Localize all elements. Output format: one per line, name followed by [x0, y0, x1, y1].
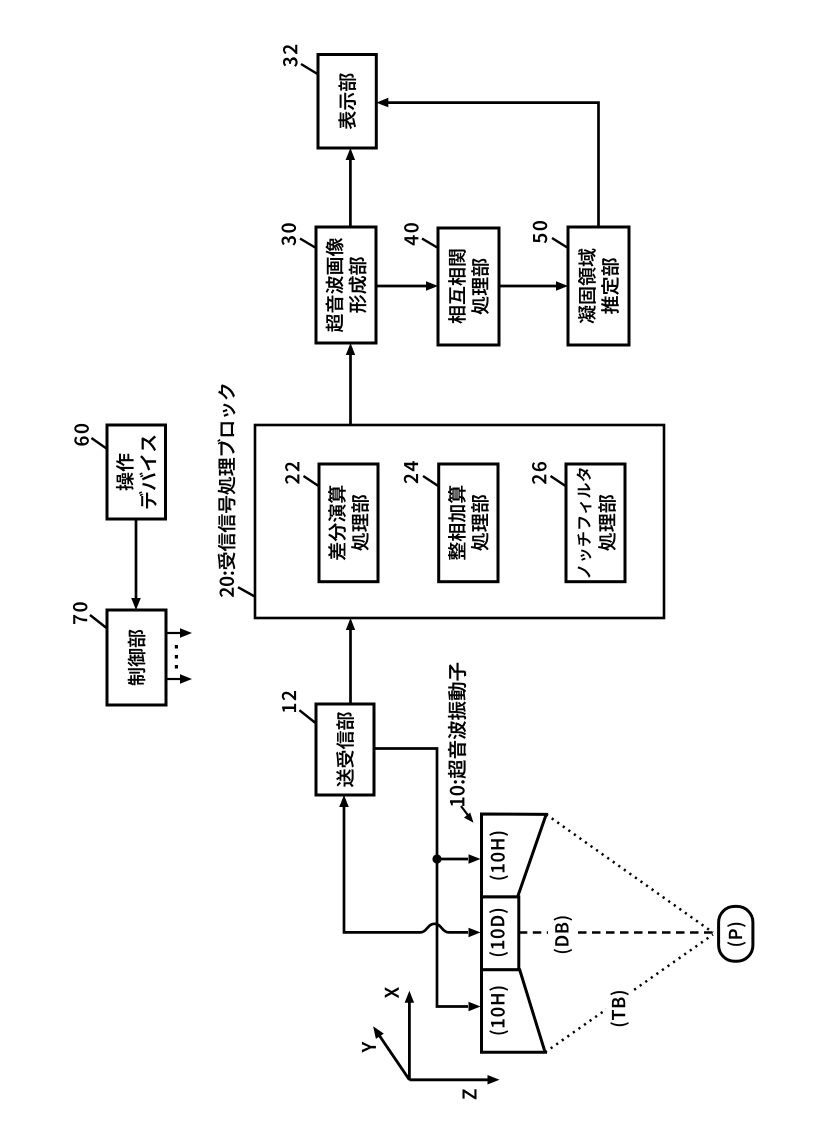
- label 20 received-signal processing block: [217, 384, 235, 597]
- leader line 20: [238, 587, 255, 596]
- leader line 60: [91, 438, 106, 449]
- leader line 70: [90, 615, 107, 628]
- text (10H) left: [489, 987, 508, 1035]
- wire 30 to 32: [349, 160, 352, 227]
- block 12 transmitting/receiving unit 送受信部: [316, 704, 374, 795]
- label 30: [282, 223, 297, 245]
- text (10H) right: [489, 832, 508, 880]
- wire 40 to 50: [499, 285, 556, 288]
- heating element 10H (right): [482, 814, 547, 897]
- wire 12 to 20: [349, 630, 352, 704]
- leader line 22: [304, 476, 319, 486]
- block 22 difference operation processing unit 差分演算処理部: [319, 464, 378, 582]
- block 40 cross-correlation processing unit 相互相関処理部: [438, 228, 499, 345]
- heating beam dotted line (right): [546, 814, 713, 932]
- text (TB): [606, 983, 633, 1035]
- block 32 display unit 表示部: [318, 55, 376, 149]
- wire 12 to diagnostic element 10D (with crossover hop): [344, 806, 468, 932]
- block 60 operation device 操作デバイス: [107, 425, 166, 519]
- block 30 ultrasound image forming unit 超音波画像形成部: [316, 227, 376, 343]
- text (DB): [554, 916, 573, 953]
- wire 30 to 40: [376, 285, 426, 288]
- text (P): [727, 923, 746, 946]
- leader line 26: [551, 476, 566, 486]
- label 10 ultrasonic transducer 10:超音波振動子: [448, 663, 466, 806]
- wire 70 control output 1 (dashed arrow): [166, 632, 182, 634]
- diagnostic element 10D (middle): [482, 897, 519, 970]
- leader line 24: [423, 476, 438, 486]
- wire 20 to 30: [349, 355, 352, 425]
- axis X (lateral): [408, 1002, 411, 1080]
- block 70 control unit 制御部: [107, 610, 166, 705]
- heating beam dotted line (left, TB): [545, 935, 713, 1053]
- focal point marker (P): [719, 906, 753, 961]
- label 32: [283, 45, 298, 67]
- label 12: [282, 691, 296, 712]
- axis Y (elevation): [379, 1035, 409, 1080]
- label 60: [74, 424, 89, 446]
- ellipsis dots between control outputs: [175, 665, 178, 669]
- label 40: [404, 223, 419, 245]
- axis label X: [385, 987, 399, 998]
- leader line 40: [422, 239, 438, 249]
- wire 12 to heating elements 10H: [374, 749, 468, 1007]
- label 70: [73, 602, 88, 624]
- label 26: [532, 462, 547, 484]
- heating element 10H (left): [482, 970, 546, 1053]
- leader line 30: [300, 239, 316, 249]
- leader line 32: [301, 64, 318, 74]
- label 24: [404, 461, 418, 483]
- diagnostic beam dashed line (DB): [519, 931, 548, 934]
- text (10D): [489, 909, 508, 956]
- branch wire to right 10H: [437, 858, 468, 861]
- label 50: [533, 221, 548, 243]
- received-signal processing block 20 outline: [255, 425, 664, 618]
- block 24 phasing addition processing unit 整相加算処理部: [439, 464, 498, 582]
- wire 50 to 32 (L-shaped): [388, 103, 599, 227]
- wire 70 control output 2 (dashed arrow): [166, 678, 182, 680]
- axis Z (depth): [409, 1078, 488, 1081]
- block 50 coagulation region estimating unit 凝固領域推定部: [568, 227, 629, 345]
- block 26 notch filter processing unit ノッチフィルタ処理部: [566, 464, 625, 582]
- label 22: [285, 462, 299, 484]
- leader line 12: [299, 710, 315, 723]
- junction node: [432, 854, 441, 863]
- axis label Y: [362, 1042, 376, 1053]
- transducer label 10 leader arrow: [461, 806, 470, 818]
- axis label Z: [463, 1089, 477, 1099]
- leader line 50: [552, 238, 568, 248]
- wire 60 to 70: [135, 519, 138, 598]
